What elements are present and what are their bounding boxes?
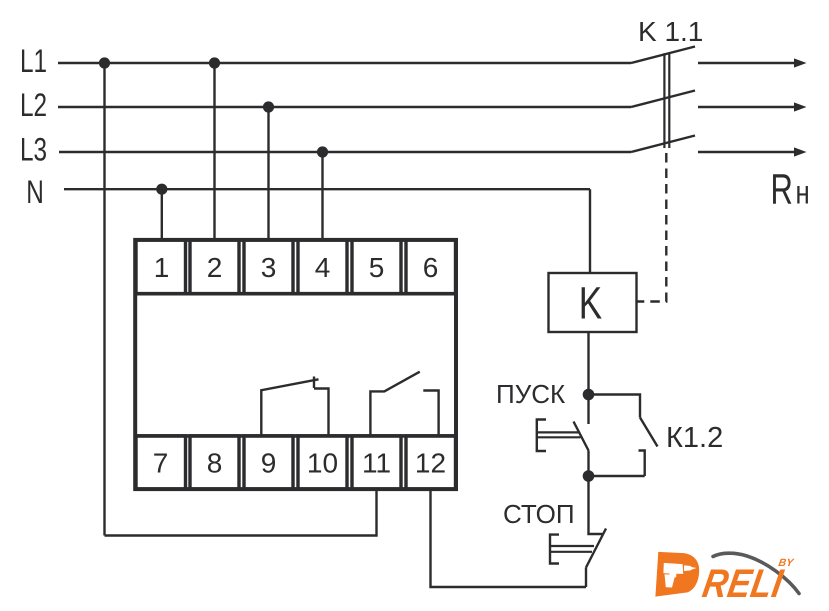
wire L1 horizontal [58,62,631,64]
logo drill chuck [684,565,693,571]
svg-text:н: н [796,175,810,212]
wire bottom left to terminal 11 [105,490,377,536]
junction start button top [583,389,595,401]
terminal row separator top [135,292,456,296]
svg-text:RELI: RELI [699,561,787,606]
junction L3 to terminal 4 [317,146,328,157]
arrowhead L1 [794,58,807,67]
wire L2 horizontal [58,106,631,108]
arrowhead L2 [794,102,807,111]
junction start button bottom [583,470,595,482]
dashed linkage K1.1 to coil K [638,153,667,302]
wire L3 output to load [698,151,795,153]
contact K1.1 pole L1 blade [631,47,695,64]
start button actuator [537,420,581,452]
junction L2 to terminal 3 [263,101,274,112]
svg-text:К1.2: К1.2 [666,422,723,454]
wire L1 output to load [698,62,795,64]
svg-text:9: 9 [261,448,277,479]
svg-text:5: 5 [369,252,385,283]
stop button actuator [550,535,594,564]
terminal 9 [244,436,293,489]
svg-text:L1: L1 [20,44,47,80]
terminal 2 [190,240,239,294]
svg-text:R: R [771,164,793,212]
terminal 5 [352,240,401,294]
contact K1.1 pole L2 blade [631,91,695,108]
svg-text:BY: BY [777,557,795,569]
svg-text:L3: L3 [20,132,47,168]
wire N down to coil K [589,189,591,273]
svg-text:4: 4 [315,252,331,283]
svg-text:N: N [26,175,44,211]
junction L1 to terminal 2 [209,57,220,68]
terminal 4 [298,240,347,294]
svg-text:ПУСК: ПУСК [496,379,565,409]
logo drill body [663,563,683,577]
contact K1.1 mechanical linkage bars [664,53,669,148]
auxiliary contact K1.2 [589,395,658,477]
wire L1 to terminal 2 [213,63,215,242]
svg-text:1: 1 [154,252,170,283]
svg-text:K: K [579,277,602,328]
start button ПУСК contact [574,395,589,472]
terminal 10 [298,436,347,489]
terminal 3 [244,240,293,294]
svg-text:2: 2 [207,252,223,283]
wire L1 down left side [103,63,105,536]
wire N to terminal 1 [161,189,163,241]
stop button СТОП contact [586,476,606,587]
svg-text:10: 10 [307,448,338,479]
svg-text:11: 11 [362,448,391,479]
wire N horizontal [64,188,590,190]
logo drill handle [665,574,676,587]
logo letter D [655,552,699,597]
internal relay contact 11-12 [370,372,438,437]
wire L2 to terminal 3 [267,107,269,242]
svg-text:6: 6 [423,252,439,283]
terminal row separator bottom [135,434,456,438]
coil K box [549,273,637,332]
logo swoosh [713,553,799,593]
wire L2 output to load [698,106,795,108]
logo drill bit [691,567,696,570]
svg-text:L2: L2 [20,88,47,124]
relay device box outline [135,240,456,489]
contact K1.1 pole L3 blade [631,136,695,153]
wire L3 horizontal [59,151,631,153]
internal relay contact 9-10 [261,377,328,438]
svg-text:3: 3 [261,252,277,283]
svg-text:7: 7 [153,448,169,479]
wire terminal 12 to stop button [431,490,587,587]
svg-text:8: 8 [207,448,223,479]
terminal 7 [136,436,186,489]
label Rн load [771,164,810,212]
terminal 6 [406,240,456,294]
svg-text:СТОП: СТОП [503,499,575,529]
terminal 11 [352,436,401,489]
terminal 8 [190,436,239,489]
terminal 1 [136,240,186,294]
arrowhead L3 [794,147,807,156]
junction L1 left branch [99,57,110,68]
svg-text:12: 12 [415,448,446,479]
svg-text:K 1.1: K 1.1 [638,16,703,47]
wire coil K to start junction [587,332,589,395]
terminal 12 [406,436,456,489]
wire L3 to terminal 4 [321,152,323,242]
junction N to terminal 1 [156,184,167,195]
